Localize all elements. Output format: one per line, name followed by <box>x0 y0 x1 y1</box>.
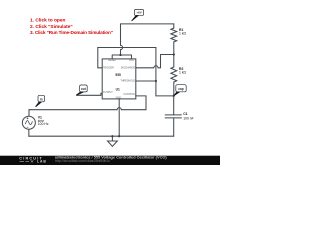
wire threshold pin <box>136 80 156 82</box>
555 pin labels <box>103 59 136 99</box>
wire cap node <box>156 95 174 97</box>
junction dots <box>111 53 175 137</box>
wire discharge jog <box>136 55 174 68</box>
wire in-control with hop over gnd wire <box>29 96 146 110</box>
svg-text:3. Click "Run Time-Domain Simu: 3. Click "Run Time-Domain Simulation" <box>30 30 113 35</box>
canvas background <box>0 0 220 165</box>
svg-text:THRESHOLD: THRESHOLD <box>120 80 135 83</box>
footer logo LAB row <box>20 160 34 162</box>
wire hop in-control over gnd <box>117 108 121 110</box>
svg-text:in: in <box>40 97 43 101</box>
svg-text:100 nF: 100 nF <box>183 117 194 121</box>
V1 sine symbol <box>26 121 33 125</box>
wire output jog <box>77 93 103 95</box>
node dot ground rail left <box>111 135 113 137</box>
svg-text:DISCHARGE: DISCHARGE <box>121 66 136 69</box>
svg-text:VCC: VCC <box>129 59 134 62</box>
node dot ground rail right <box>118 135 120 137</box>
node dot R1/R2/discharge <box>173 53 175 55</box>
wire R1 top lead <box>173 24 175 28</box>
wire 555 gnd pin down <box>118 99 120 136</box>
svg-text:OUTPUT: OUTPUT <box>103 91 113 94</box>
svg-text:U1: U1 <box>116 87 120 91</box>
node dot threshold <box>155 80 157 82</box>
svg-text:RESET: RESET <box>108 59 117 62</box>
wire ground stub <box>111 136 113 141</box>
wire V1 top lead <box>28 110 30 116</box>
svg-text:+6V: +6V <box>136 11 141 15</box>
wire R2 top lead <box>173 55 175 68</box>
label R1 <box>38 28 194 126</box>
wire R1 bottom lead <box>173 42 175 55</box>
wire trigger rail <box>98 47 156 49</box>
wire trigger pin <box>98 48 102 68</box>
node dot cap <box>173 95 175 97</box>
flag cap <box>174 85 186 96</box>
svg-text:GND: GND <box>116 97 122 100</box>
capacitor C1 plates <box>165 115 181 118</box>
wire C1 bottom lead <box>173 118 175 136</box>
wire C1 top lead <box>173 96 175 115</box>
wire R2 bottom lead <box>173 82 175 96</box>
svg-text:1 kΩ: 1 kΩ <box>179 32 187 36</box>
wire reset-vcc tie bar <box>112 55 131 59</box>
wire V1 bottom lead <box>28 129 30 136</box>
svg-text:C1: C1 <box>183 112 187 116</box>
svg-text:1 kΩ: 1 kΩ <box>179 71 187 75</box>
flag +6V <box>132 10 144 21</box>
svg-text:1. Click to open: 1. Click to open <box>30 17 66 23</box>
resistor R2 <box>171 67 177 82</box>
ground symbol <box>108 141 118 146</box>
voltage source V1 circle <box>22 116 35 129</box>
flag in <box>36 95 45 107</box>
node dot vcc rail <box>119 54 121 56</box>
svg-text:TRIGGER: TRIGGER <box>103 66 114 69</box>
V1 plus mark <box>27 117 29 119</box>
svg-text:2. Click "Simulate": 2. Click "Simulate" <box>30 24 73 30</box>
wire top +6V rail <box>121 23 174 25</box>
svg-text:555: 555 <box>115 73 121 77</box>
wire trigger-threshold vertical <box>155 48 157 96</box>
svg-text:LAB: LAB <box>37 160 47 164</box>
red instruction text <box>30 17 113 35</box>
op-amp 555 box U1 <box>102 59 136 99</box>
svg-text:100 Hz: 100 Hz <box>38 122 49 126</box>
svg-text:cap: cap <box>178 87 184 91</box>
wire +6V vertical with hop over trigger rail <box>120 24 122 55</box>
footer bar <box>0 156 220 165</box>
svg-text:http://circuitlab.com/c6ae28nf: http://circuitlab.com/c6ae28nf59b2c <box>55 159 110 163</box>
flag out <box>76 85 87 95</box>
wire hop discharge over trigger vertical <box>154 66 158 68</box>
svg-text:CONTROL: CONTROL <box>123 93 135 96</box>
resistor R1 <box>171 28 177 42</box>
wire bottom rail <box>29 135 174 137</box>
V1 minus mark <box>27 126 29 128</box>
555 designator labels <box>115 73 121 91</box>
